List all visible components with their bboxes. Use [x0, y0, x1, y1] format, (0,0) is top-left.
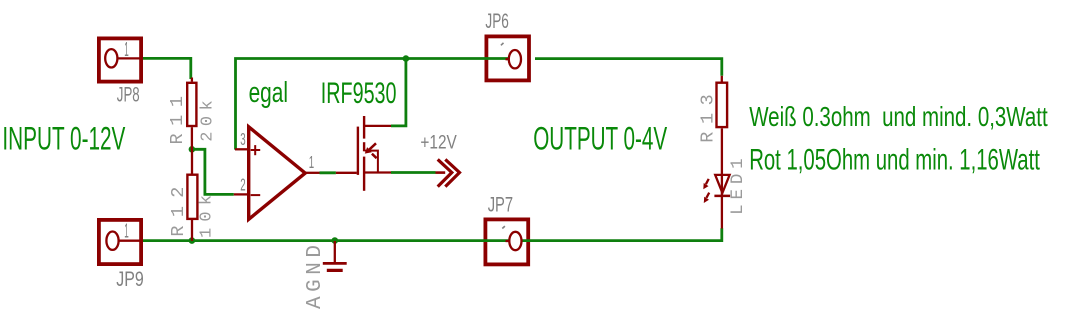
- wire MOSFET drain to top rail: [391, 59, 406, 126]
- JP7 pin 1 lead: [506, 240, 510, 242]
- transistor body arrow shaft: [369, 143, 376, 150]
- connector JP9 body: [99, 220, 141, 264]
- op-amp U1 pin3 lead: [235, 148, 249, 150]
- transistor channel segment top: [363, 116, 365, 139]
- junction node AGND on rail: [332, 237, 339, 244]
- wire bottom rail JP9 to JP7 to LED: [143, 228, 722, 240]
- svg-text:INPUT 0-12V: INPUT 0-12V: [2, 120, 125, 156]
- junction node drain on top rail: [403, 55, 410, 62]
- wire divider node to op-amp pin2: [192, 149, 234, 194]
- supply +12V chevrons: [438, 159, 460, 186]
- connector JP7 body: [485, 219, 528, 264]
- transistor source lead: [364, 171, 391, 173]
- svg-text:JP7: JP7: [488, 192, 513, 216]
- wire op-amp pin3 to top rail to JP6: [236, 59, 510, 150]
- svg-text:Weiß 0.3ohm und mind. 0,3Watt: Weiß 0.3ohm und mind. 0,3Watt: [749, 101, 1048, 132]
- supply +12V lead: [436, 171, 446, 174]
- transistor drain lead: [364, 125, 391, 127]
- connector JP8 body: [99, 38, 141, 81]
- svg-text:10k: 10k: [197, 195, 216, 238]
- svg-text:Rot 1,05Ohm und min. 1,16Watt: Rot 1,05Ohm und min. 1,16Watt: [749, 144, 1040, 177]
- LED1 cathode bar: [714, 195, 730, 198]
- LED1 triangle: [715, 175, 729, 193]
- ground AGND bar2: [327, 269, 343, 272]
- svg-text:2: 2: [240, 175, 245, 195]
- resistor R13 body: [717, 83, 728, 127]
- pin 1 tick of JP7: [502, 226, 505, 228]
- ground AGND stem: [334, 241, 336, 262]
- transistor body arrow head: [365, 147, 372, 154]
- svg-text:20k: 20k: [198, 100, 217, 142]
- resistor R11 bottom lead: [191, 127, 193, 150]
- svg-text:R13: R13: [697, 94, 718, 143]
- JP9 pin 1 lead: [118, 240, 143, 242]
- LED1 light arrow lower: [704, 193, 709, 203]
- wire MOSFET source to +12V: [391, 171, 436, 174]
- wire op-amp output to MOSFET gate: [320, 171, 336, 174]
- LED1 light arrow upper: [703, 179, 708, 189]
- resistor R12 bottom lead: [191, 220, 193, 241]
- JP9 pad circle: [106, 232, 118, 250]
- transistor Q1 IRF9530 gate lead: [336, 172, 357, 174]
- svg-text:+12V: +12V: [420, 133, 457, 154]
- JP7 pad circle: [509, 232, 521, 250]
- svg-text:R11: R11: [167, 96, 188, 145]
- LED1 cathode lead: [721, 197, 723, 229]
- svg-text:egal: egal: [249, 77, 288, 109]
- connector JP6 body: [486, 36, 529, 80]
- op-amp U1 pin2 lead: [234, 193, 249, 195]
- junction node R12 to ground rail: [189, 237, 196, 244]
- op-amp minus marking: [251, 194, 261, 196]
- svg-text:1: 1: [309, 152, 314, 172]
- svg-text:OUTPUT 0-4V: OUTPUT 0-4V: [533, 121, 667, 157]
- JP8 pad circle: [105, 49, 117, 67]
- transistor channel segment bottom: [363, 157, 365, 191]
- op-amp U1 output lead: [305, 172, 319, 174]
- JP8 pin 1 lead: [117, 57, 143, 59]
- pin 1 tick of JP6: [501, 43, 504, 45]
- svg-text:3: 3: [240, 129, 245, 149]
- wire JP6 to R13: [535, 59, 722, 76]
- op-amp U1 triangle: [249, 127, 306, 220]
- resistor R12 top lead: [191, 150, 193, 173]
- resistor R12 body: [187, 175, 197, 219]
- transistor gate plate: [357, 127, 359, 175]
- resistor R11 top lead: [191, 78, 193, 82]
- svg-text:R12: R12: [168, 187, 189, 237]
- svg-text:JP8: JP8: [117, 82, 140, 106]
- junction node R11/R12 divider: [189, 146, 196, 153]
- JP6 pad circle: [509, 50, 521, 68]
- svg-text:1: 1: [124, 38, 129, 61]
- svg-text:IRF9530: IRF9530: [321, 77, 397, 110]
- transistor body arrow tail: [372, 154, 377, 159]
- svg-text:JP9: JP9: [116, 267, 144, 291]
- resistor R11 body: [187, 83, 196, 126]
- transistor channel segment middle: [363, 142, 365, 151]
- LED1 anode lead from R13: [721, 128, 723, 196]
- JP6 pin 1 lead: [506, 58, 510, 60]
- ground AGND bar1: [323, 262, 347, 265]
- op-amp plus marking: [251, 145, 261, 155]
- resistor R13 top lead: [721, 76, 723, 82]
- wire JP8 to R11: [143, 58, 191, 79]
- svg-text:1: 1: [124, 219, 129, 242]
- transistor body connection: [365, 151, 378, 173]
- svg-text:JP6: JP6: [485, 9, 509, 33]
